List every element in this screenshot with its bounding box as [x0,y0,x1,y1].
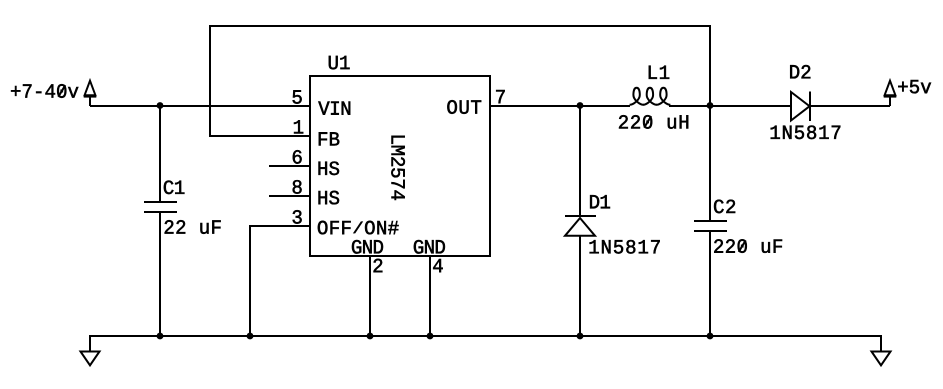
junction node OUT/D1 [577,102,584,109]
junction node pin4/gnd [427,333,434,340]
label C2 [714,200,735,214]
capacitor C1 plates [144,202,177,212]
junction node pin2/gnd [367,333,374,340]
power terminal arrow +5v [884,81,897,106]
pin number 2 [374,259,383,272]
value 1N5817 D1 [590,240,660,254]
slashed zero in 220 uH [644,116,651,128]
label L1 [649,66,669,79]
wire HS pin6 stub [269,165,310,167]
pin label OUT [447,100,481,114]
slashed zero in +7-40v [58,85,65,97]
pin number 1 [294,120,303,133]
wire L1 to node [669,105,710,107]
pin number 4 [433,259,443,272]
junction node L1/C2/D2/FB [707,102,714,109]
pin label HS pin8 [319,191,340,205]
wire C1 top [159,106,161,202]
junction node C1/gnd [157,333,164,340]
wire OUT to L1 [490,105,630,107]
pin number 5 [293,90,302,103]
wire GND pin2 [369,256,371,336]
wire ground rail [90,336,881,351]
capacitor C2 plates [694,221,727,231]
label +7-40v [11,84,78,98]
pin number 6 [293,150,302,164]
label U1 [329,56,350,69]
value 1N5817 D2 [771,125,841,139]
pin label VIN [318,102,350,115]
label D1 [590,195,610,208]
value 220 uH [619,115,688,129]
label C1 [164,180,185,194]
pin number 3 [293,210,302,224]
junction node C2/gnd [707,333,714,340]
wire HS pin8 stub [269,195,310,197]
value LM2574 [391,136,405,200]
power terminal arrow +7-40v [84,81,97,106]
wire VIN input [90,105,310,107]
wire C2 top [709,106,711,221]
wire FB feedback loop [210,26,710,136]
wire C2 bottom [709,231,711,336]
wire D1 cathode [579,106,581,216]
diode D1 symbol [565,216,596,236]
junction node VIN/C1 [157,102,164,109]
pin number 8 [293,180,302,194]
wire D1 anode to ground [579,236,581,337]
pin label GND pin2 [352,240,383,254]
value 22 uF [165,220,221,234]
IC U1 LM2574 box [310,76,490,256]
slashed zero in 220 uF [739,240,746,252]
inductor L1 coils [630,88,671,105]
label +5v [898,80,931,93]
ground symbol left [81,352,100,366]
pin label GND pin4 [414,240,445,254]
wire D2 anode [710,105,791,107]
wire D2 cathode to +5v [810,105,890,107]
wire C1 bottom [159,212,161,336]
wire GND pin4 [429,256,431,336]
label D2 [790,65,810,78]
pin label OFF/ON# [318,221,399,235]
junction node pin3/gnd [247,333,254,340]
pin label FB [319,132,339,145]
value 220 uF [714,239,782,253]
pin number 7 [496,90,505,103]
wire OFF/ON# pin3 to ground [250,226,310,336]
diode D2 symbol [791,92,810,122]
ground symbol right [872,352,891,366]
pin label HS pin6 [319,161,340,175]
junction node D1/gnd [577,333,584,340]
